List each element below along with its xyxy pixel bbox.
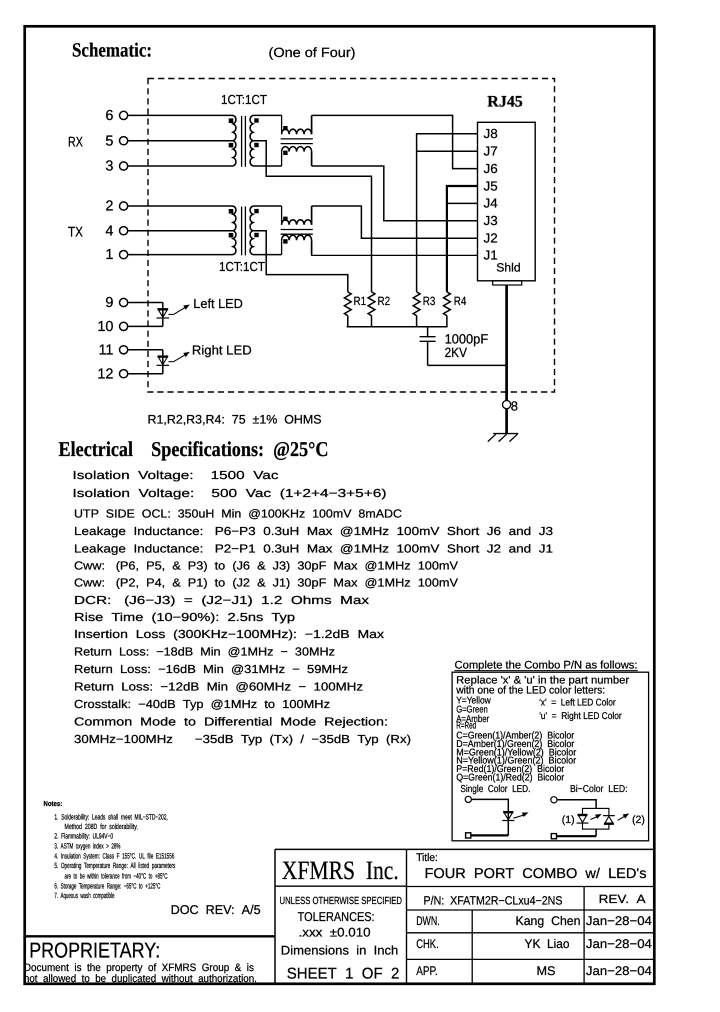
svg-text:3. ASTM oxygen index > 28: 3. ASTM oxygen index > 28% (54, 842, 120, 851)
wire T1 secondary top to L1 top-left (253, 114, 282, 116)
wire L1 bottom-right to RJ45 J3 (312, 166, 478, 221)
svg-text:6. Storage Temperature Rang: 6. Storage Temperature Range: −65°C to +… (54, 882, 160, 891)
proprietary text (24, 962, 257, 985)
title block tolerance text (280, 896, 403, 982)
svg-text:Cww: (P2, P4, & P1) to: Cww: (P2, P4, & P1) to (J2 & J1) 30pF Ma… (74, 577, 458, 590)
svg-text:J4: J4 (484, 196, 498, 211)
svg-text:Schematic:: Schematic: (72, 39, 152, 61)
svg-text:SHEET 1 OF 2: SHEET 1 OF 2 (287, 965, 400, 982)
dwn row (416, 914, 652, 928)
pin 8 terminal (503, 401, 511, 409)
svg-text:Dimensions in Inch: Dimensions in Inch (281, 944, 399, 958)
svg-text:4. Insulation System: Class: 4. Insulation System: Class F 155°C. UL … (54, 852, 174, 861)
svg-text:3: 3 (105, 159, 113, 175)
pin 12 terminal (120, 370, 128, 378)
notes list (44, 799, 176, 900)
resistor R4 75 ohm (444, 292, 451, 327)
svg-text:R1: R1 (354, 294, 367, 308)
electrical specification text lines (73, 469, 554, 746)
svg-text:Leakage Inductance: P2−P1: Leakage Inductance: P2−P1 0.3uH Max @1MH… (74, 542, 553, 555)
svg-text:RJ45: RJ45 (487, 94, 523, 111)
svg-text:J6: J6 (484, 161, 498, 176)
proprietary box top line (23, 935, 275, 937)
svg-text:Cww: (P6, P5, & P3) to: Cww: (P6, P5, & P3) to (J6 & J3) 30pF Ma… (74, 560, 458, 573)
wire pin 1 to T2 primary bottom (128, 254, 233, 256)
wire termination bus (347, 326, 448, 328)
svg-text:'u' = Right LED Color: 'u' = Right LED Color (539, 711, 622, 722)
svg-text:2: 2 (105, 199, 113, 215)
transformer T2 (TX) 1CT:1CT (229, 206, 259, 255)
svg-text:Title:: Title: (416, 852, 438, 864)
app row (416, 964, 652, 978)
wire pin 5 to T1 primary center tap (128, 140, 233, 142)
svg-text:J8: J8 (484, 126, 498, 141)
svg-text:Single Color LED.: Single Color LED. (460, 784, 530, 795)
svg-text:P/N: XFATM2R−CLxu4−2NS: P/N: XFATM2R−CLxu4−2NS (424, 893, 563, 907)
leader arrow Left LED (168, 313, 173, 315)
svg-text:UTP SIDE OCL: 350uH Min @: UTP SIDE OCL: 350uH Min @100KHz 100mV 8m… (74, 508, 402, 521)
pin wires and LED D (Left LED) (128, 303, 169, 327)
svg-text:Leakage Inductance: P6−P3: Leakage Inductance: P6−P3 0.3uH Max @1MH… (74, 525, 553, 538)
wire T2 secondary center tap to R1 (253, 231, 348, 292)
svg-text:TOLERANCES:: TOLERANCES: (298, 909, 375, 924)
svg-text:8: 8 (511, 398, 518, 413)
svg-text:Common Mode to Differential: Common Mode to Differential Mode Rejecti… (74, 715, 388, 728)
wire T1 secondary center tap to R2 (253, 141, 372, 292)
wire RJ45 J8 J7 tie to R3 (417, 134, 478, 292)
svg-text:(2): (2) (632, 814, 645, 826)
pin 11 terminal (120, 346, 128, 354)
svg-text:R4: R4 (454, 294, 467, 308)
common-mode choke L1 (RX) (281, 115, 313, 166)
chk row (416, 937, 652, 951)
resistor R1 75 ohm (344, 292, 351, 327)
svg-text:R2: R2 (378, 294, 391, 308)
svg-text:DOC REV: A/5: DOC REV: A/5 (171, 903, 261, 917)
svg-text:9: 9 (105, 295, 113, 311)
svg-text:Rise Time (10−90%): 2.5ns: Rise Time (10−90%): 2.5ns Typ (74, 611, 295, 624)
svg-text:1CT:1CT: 1CT:1CT (219, 259, 265, 274)
svg-text:4: 4 (105, 223, 113, 239)
combo box text (455, 675, 629, 784)
bi-color LED symbol (551, 797, 645, 840)
svg-text:Notes:: Notes: (44, 799, 63, 808)
svg-text:2KV: 2KV (445, 345, 467, 360)
svg-text:Insertion Loss (300KHz−100MH: Insertion Loss (300KHz−100MHz): −1.2dB M… (74, 628, 384, 641)
svg-text:1CT:1CT: 1CT:1CT (221, 92, 267, 107)
svg-text:Isolation Voltage: 500 Va: Isolation Voltage: 500 Vac (1+2+4−3+5+6) (73, 487, 387, 500)
wire T1 secondary bottom to L1 bottom-left (253, 165, 282, 167)
svg-text:Bi−Color LED:: Bi−Color LED: (570, 784, 628, 795)
single color LED symbol (465, 796, 529, 838)
pin 4 terminal (120, 227, 128, 235)
svg-text:XFMRS Inc.: XFMRS Inc. (282, 855, 399, 885)
svg-text:Jan−28−04: Jan−28−04 (586, 914, 652, 928)
svg-text:7. Aqueous wash compatible: 7. Aqueous wash compatible (54, 891, 114, 900)
pin 3 terminal (120, 162, 128, 170)
svg-text:J2: J2 (484, 231, 498, 246)
svg-text:Electrical Specifications:: Electrical Specifications: @25°C (59, 437, 329, 461)
resistor R2 75 ohm (368, 292, 375, 327)
svg-text:UNLESS OTHERWISE SPECIFIED: UNLESS OTHERWISE SPECIFIED (280, 896, 403, 907)
svg-text:Complete the Combo P/N as foll: Complete the Combo P/N as follows: (455, 659, 638, 671)
pin wires and LED D (Right LED) (128, 350, 169, 374)
svg-text:R1,R2,R3,R4: 75 ±1% OHMS: R1,R2,R3,R4: 75 ±1% OHMS (148, 413, 322, 427)
svg-text:30MHz−100MHz −35dB Typ: 30MHz−100MHz −35dB Typ (Tx) / −35dB Typ … (74, 733, 411, 746)
svg-text:J5: J5 (484, 178, 498, 193)
svg-text:YK Liao: YK Liao (525, 937, 570, 951)
svg-text:(One of Four): (One of Four) (269, 45, 356, 60)
title block outline (275, 849, 655, 984)
wire L2 bottom-right to RJ45 J1 (312, 254, 478, 257)
svg-text:Return Loss: −12dB Min @60: Return Loss: −12dB Min @60MHz − 100MHz (74, 680, 363, 693)
transformer T1 (RX) 1CT:1CT (229, 115, 259, 166)
svg-text:REV. A: REV. A (599, 892, 646, 906)
svg-text:5: 5 (105, 133, 113, 149)
wire pin 8 to ground (505, 409, 508, 434)
wire T2 secondary top to L2 top-left (253, 205, 282, 207)
svg-text:CHK.: CHK. (416, 937, 439, 951)
pin 5 terminal (120, 137, 128, 145)
svg-text:Method 208D for solderabili: Method 208D for solderability. (65, 822, 138, 831)
svg-text:6: 6 (105, 108, 113, 124)
svg-text:R3: R3 (423, 294, 436, 308)
wire RJ45 shield to pin 8 (505, 285, 508, 400)
combo part-number note box (452, 672, 648, 841)
svg-text:FOUR PORT COMBO w/ LED's: FOUR PORT COMBO w/ LED's (425, 866, 647, 882)
svg-text:DWN.: DWN. (416, 914, 440, 928)
RJ45 connector J1-J8 box (478, 122, 536, 280)
RJ45 shield tab (493, 281, 522, 285)
svg-text:are to be within tolerance: are to be within tolerance from −40°C to… (65, 871, 168, 880)
svg-text:TX: TX (68, 224, 83, 240)
svg-text:J3: J3 (484, 213, 498, 228)
svg-text:11: 11 (98, 342, 113, 358)
wire pin 2 to T2 primary top (128, 205, 233, 207)
svg-text:MS: MS (537, 964, 556, 978)
svg-text:DCR: (J6−J3) = (J2−J1) 1.: DCR: (J6−J3) = (J2−J1) 1.2 Ohms Max (74, 594, 369, 607)
capacitor C1 1000pF 2KV (420, 327, 436, 366)
svg-text:Jan−28−04: Jan−28−04 (586, 964, 652, 978)
svg-text:Return Loss: −18dB Min @1M: Return Loss: −18dB Min @1MHz − 30MHz (74, 646, 335, 659)
wire RJ45 J5 J4 tie to R4 (447, 186, 478, 292)
svg-text:1. Solderability: Leads sha: 1. Solderability: Leads shall meet MIL−S… (54, 813, 167, 822)
dashed module boundary box (148, 79, 555, 393)
svg-text:PROPRIETARY:: PROPRIETARY: (29, 939, 160, 963)
svg-text:5. Operating Temperature Ra: 5. Operating Temperature Range: All list… (54, 861, 175, 870)
wire T2 secondary bottom to L2 bottom-left (253, 254, 282, 256)
svg-text:12: 12 (97, 366, 113, 382)
svg-text:10: 10 (97, 319, 113, 335)
ground symbol (488, 434, 518, 442)
svg-text:Isolation Voltage: 1500 V: Isolation Voltage: 1500 Vac (73, 469, 279, 482)
svg-text:APP.: APP. (416, 964, 438, 978)
svg-text:'x' = Left LED Color: 'x' = Left LED Color (539, 697, 616, 708)
pin 10 terminal (120, 322, 128, 330)
wire pin 4 to T2 primary center tap (128, 230, 233, 232)
svg-text:2. Flammability: UL94V−0: 2. Flammability: UL94V−0 (54, 832, 113, 841)
wire pin 3 to T1 primary bottom (128, 165, 233, 167)
resistor R3 75 ohm (413, 292, 420, 327)
svg-text:Kang Chen: Kang Chen (516, 914, 581, 928)
svg-text:Return Loss: −16dB Min @31: Return Loss: −16dB Min @31MHz − 59MHz (74, 663, 348, 676)
wire L1 top-right to RJ45 J6 (312, 115, 478, 168)
svg-text:(1): (1) (562, 814, 575, 826)
pin 1 terminal (120, 251, 128, 259)
svg-text:1000pF: 1000pF (445, 331, 489, 346)
svg-text:J7: J7 (484, 144, 498, 159)
pin 2 terminal (120, 202, 128, 210)
svg-text:Jan−28−04: Jan−28−04 (586, 937, 652, 951)
leader arrow Right LED (168, 361, 173, 363)
svg-text:RX: RX (68, 133, 83, 149)
svg-text:not allowed to be duplicat: not allowed to be duplicated without aut… (24, 973, 257, 985)
svg-text:Right LED: Right LED (192, 343, 252, 358)
pin 6 terminal (120, 111, 128, 119)
svg-text:Shld: Shld (496, 260, 520, 274)
svg-text:Q=Green(1)/Red(2) Bicolor: Q=Green(1)/Red(2) Bicolor (456, 773, 565, 784)
common-mode choke L2 (TX) (281, 206, 313, 255)
wire C1 to shield net (428, 364, 507, 366)
svg-text:Crosstalk: −40dB Typ @1MHz: Crosstalk: −40dB Typ @1MHz to 100MHz (74, 698, 330, 711)
svg-text:.xxx ±0.010: .xxx ±0.010 (299, 926, 371, 940)
svg-text:1: 1 (105, 247, 113, 263)
wire pin 6 to T1 primary top (128, 114, 233, 116)
pin 9 terminal (120, 298, 128, 306)
wire L2 top-right to RJ45 J2 (312, 206, 478, 238)
svg-text:Left LED: Left LED (193, 296, 243, 311)
